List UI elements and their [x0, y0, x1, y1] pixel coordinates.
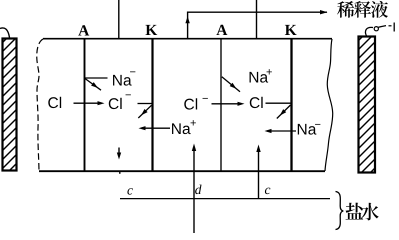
- svg-text:K: K: [285, 22, 297, 39]
- svg-text:+: +: [190, 118, 196, 130]
- svg-text:c: c: [265, 182, 271, 197]
- svg-text:Cl: Cl: [249, 95, 264, 112]
- svg-text:Na: Na: [171, 121, 191, 138]
- svg-text:−: −: [130, 67, 136, 79]
- svg-text:+: +: [266, 67, 272, 79]
- svg-text:A: A: [78, 23, 90, 40]
- svg-text:−: −: [125, 90, 131, 102]
- svg-text:−: −: [202, 93, 208, 105]
- svg-text:A: A: [216, 22, 228, 39]
- svg-text:Cl: Cl: [108, 96, 123, 113]
- svg-text:d: d: [195, 182, 202, 197]
- svg-text:Cl: Cl: [48, 95, 63, 112]
- svg-text:K: K: [145, 22, 157, 39]
- svg-text:c: c: [127, 183, 133, 198]
- svg-text:−: −: [315, 119, 321, 131]
- svg-text:Cl: Cl: [184, 96, 199, 113]
